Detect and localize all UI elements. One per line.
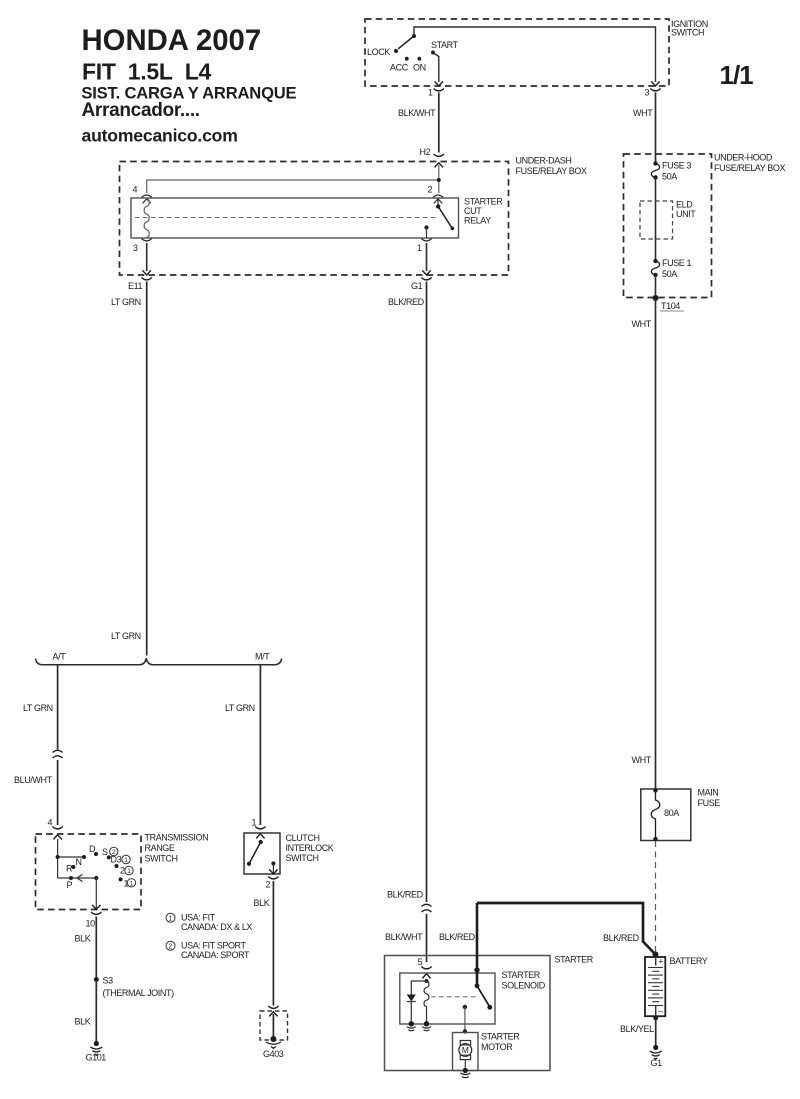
svg-text:CUT: CUT (464, 206, 482, 216)
svg-text:SWITCH: SWITCH (286, 853, 319, 863)
starter box (385, 956, 551, 1071)
solenoid diode (411, 981, 426, 1023)
svg-text:BLK/RED: BLK/RED (388, 297, 425, 307)
svg-text:1: 1 (130, 880, 134, 887)
starter solenoid box (400, 973, 495, 1024)
svg-text:+: + (658, 956, 663, 966)
under-dash fuse/relay box (120, 162, 509, 276)
svg-text:1/1: 1/1 (720, 60, 754, 90)
svg-text:FUSE: FUSE (698, 798, 721, 808)
relay coil (144, 199, 149, 238)
svg-text:S3: S3 (103, 976, 114, 986)
svg-text:2: 2 (428, 185, 433, 195)
svg-text:START: START (431, 40, 459, 50)
wire fuse3 to fuse1 (655, 178, 657, 262)
svg-text:CANADA: SPORT: CANADA: SPORT (181, 950, 250, 960)
note 1 USA:FIT CANADA DX LX (166, 913, 175, 922)
wire pin 3 to E11 (146, 243, 148, 271)
svg-text:S: S (102, 847, 108, 857)
svg-text:H2: H2 (420, 147, 431, 157)
note 2 USA:FIT SPORT CANADA SPORT (166, 941, 175, 950)
svg-text:BLK/RED: BLK/RED (439, 932, 476, 942)
wire pin 1 to G1 (426, 243, 428, 271)
relay pin 3 (142, 239, 152, 241)
wire BLU/WHT (57, 760, 59, 825)
wire LT GRN E11 down to branch (146, 282, 148, 656)
svg-text:LT GRN: LT GRN (111, 631, 141, 641)
svg-text:80A: 80A (664, 808, 679, 818)
wire from arm to pin 3 (414, 27, 656, 82)
pin 1 connector (435, 81, 443, 86)
svg-text:WHT: WHT (632, 319, 652, 329)
svg-text:WHT: WHT (632, 755, 652, 765)
svg-text:MOTOR: MOTOR (481, 1042, 513, 1052)
relay contact arm (434, 199, 442, 204)
svg-text:P: P (67, 880, 73, 890)
relay pin 2 (433, 195, 443, 197)
svg-text:G1: G1 (651, 1058, 663, 1068)
solenoid mechanical link (dashed) (431, 996, 479, 998)
wire BLK/WHT pin1 to H2 (438, 93, 440, 153)
svg-text:HONDA 2007: HONDA 2007 (82, 24, 262, 57)
svg-text:FUSE 3: FUSE 3 (662, 161, 692, 171)
svg-text:M: M (462, 1045, 469, 1055)
svg-text:G403: G403 (263, 1049, 284, 1059)
solenoid fixed contact to motor (463, 1005, 467, 1009)
svg-text:MAIN: MAIN (698, 788, 719, 798)
svg-text:UNIT: UNIT (676, 209, 696, 219)
main fuse 80A (653, 788, 657, 792)
svg-text:BLK/RED: BLK/RED (603, 933, 640, 943)
svg-text:RANGE: RANGE (145, 843, 175, 853)
svg-text:BLK/WHT: BLK/WHT (385, 932, 423, 942)
svg-text:BLK: BLK (254, 898, 270, 908)
inline connector on A/T wire (53, 750, 63, 758)
svg-text:3: 3 (645, 88, 650, 98)
svg-text:G1: G1 (411, 281, 423, 291)
svg-text:SWITCH: SWITCH (671, 28, 704, 38)
svg-text:1: 1 (127, 868, 131, 875)
svg-text:BLK: BLK (75, 934, 91, 944)
svg-text:ACC: ACC (390, 63, 409, 73)
wire WHT pin3 to under-hood box (655, 93, 657, 164)
clutch switch arm (259, 840, 263, 844)
svg-text:automecanico.com: automecanico.com (82, 126, 238, 146)
svg-text:M/T: M/T (255, 652, 270, 662)
contact R (71, 865, 75, 869)
contact N (82, 855, 86, 859)
battery cable wire (477, 903, 656, 955)
wire BLK/YEL (655, 1018, 657, 1045)
svg-text:50A: 50A (662, 172, 677, 182)
svg-text:TRANSMISSION: TRANSMISSION (145, 833, 209, 843)
svg-text:ON: ON (413, 63, 426, 73)
TRS pin 10 connector (92, 905, 100, 910)
fuse FUSE 3 50A (653, 161, 657, 165)
ground box G403 (260, 1011, 288, 1040)
svg-text:D3: D3 (111, 855, 122, 865)
dashed wire main fuse to battery (655, 841, 657, 952)
svg-text:USA: FIT SPORT: USA: FIT SPORT (181, 941, 246, 951)
svg-text:2: 2 (266, 880, 271, 890)
svg-text:D: D (89, 844, 96, 854)
ground G101 (90, 1041, 102, 1055)
battery B1 (645, 957, 665, 1016)
junction to pin 10 (94, 876, 98, 880)
svg-text:STARTER: STARTER (555, 955, 594, 965)
svg-text:CLUTCH: CLUTCH (286, 833, 320, 843)
connector G1 (422, 270, 430, 275)
svg-text:2: 2 (169, 943, 173, 950)
svg-text:BLU/WHT: BLU/WHT (14, 775, 53, 785)
svg-text:Arrancador....: Arrancador.... (82, 100, 200, 121)
svg-text:BLK/RED: BLK/RED (387, 890, 424, 900)
junction H2 wire (437, 178, 441, 182)
branch brace A/T M/T (36, 658, 282, 664)
svg-text:USA: FIT: USA: FIT (181, 913, 216, 923)
relay mechanical link (dashed) (135, 217, 437, 219)
main fuse box (641, 789, 691, 841)
clutch interlock switch box (244, 833, 280, 874)
wire M/T branch LT GRN (259, 665, 261, 825)
wire BLK pin10 to S3 (95, 917, 97, 979)
relay fixed contact to pin 1 (424, 225, 428, 229)
relay pin 4 (142, 195, 152, 197)
svg-text:RELAY: RELAY (464, 216, 491, 226)
svg-text:5: 5 (418, 957, 423, 967)
svg-text:–: – (658, 1006, 663, 1016)
contact 2 (1) (115, 864, 119, 868)
contact P with arrow (69, 876, 73, 880)
contact D (94, 852, 98, 856)
under-hood fuse/relay box (624, 154, 712, 298)
connector E11 (143, 270, 151, 275)
svg-text:FIT 1.5L L4: FIT 1.5L L4 (82, 59, 212, 85)
svg-text:2: 2 (120, 866, 125, 876)
wire WHT T104 down to main fuse (655, 298, 657, 789)
clutch pin 2 connector (269, 869, 277, 874)
pin 3 connector (651, 81, 659, 86)
wire BLK clutch to G403 (272, 881, 274, 1006)
solenoid contact arm (475, 983, 480, 988)
svg-text:50A: 50A (662, 269, 677, 279)
battery negative node (653, 1016, 658, 1021)
svg-text:FUSE/RELAY BOX: FUSE/RELAY BOX (516, 166, 587, 176)
svg-text:FUSE 1: FUSE 1 (662, 258, 692, 268)
wire BLK S3 to G101 (95, 980, 97, 1042)
motor M1 (460, 1041, 470, 1045)
wire A/T branch LT GRN (57, 665, 59, 750)
ground G1 (650, 1045, 662, 1059)
contact S (2) (107, 855, 111, 859)
splice S3 thermal joint (94, 977, 99, 982)
svg-text:1: 1 (428, 88, 433, 98)
svg-text:FUSE/RELAY BOX: FUSE/RELAY BOX (714, 163, 785, 173)
inline connector on BLK/RED wire (422, 904, 432, 912)
svg-text:1: 1 (169, 915, 173, 922)
svg-text:(THERMAL JOINT): (THERMAL JOINT) (103, 988, 175, 998)
svg-text:UNDER-HOOD: UNDER-HOOD (714, 153, 773, 163)
svg-text:WHT: WHT (633, 108, 653, 118)
ignition switch box (365, 19, 669, 86)
svg-text:E11: E11 (128, 281, 143, 291)
starter cut relay box (131, 198, 459, 238)
svg-text:BLK/YEL: BLK/YEL (620, 1024, 654, 1034)
svg-text:STARTER: STARTER (502, 970, 541, 980)
motor case ground (464, 1060, 466, 1070)
fuse FUSE 1 50A (653, 259, 657, 263)
transmission range switch box (36, 834, 142, 910)
wire START to pin 1 (434, 53, 439, 82)
switch arm (398, 36, 414, 49)
svg-text:STARTER: STARTER (464, 197, 503, 207)
wire BLK/WHT connector to pin 5 (426, 914, 428, 962)
ground G403 (270, 1036, 276, 1042)
svg-text:CANADA: DX & LX: CANADA: DX & LX (181, 922, 252, 932)
svg-text:G101: G101 (86, 1053, 107, 1063)
svg-text:BATTERY: BATTERY (670, 956, 708, 966)
svg-text:10: 10 (86, 919, 96, 929)
svg-text:BLK/WHT: BLK/WHT (398, 108, 436, 118)
svg-text:4: 4 (48, 818, 53, 828)
svg-text:N: N (76, 857, 82, 867)
solenoid coil (425, 979, 429, 983)
connector into G403 (268, 1006, 278, 1008)
svg-text:SOLENOID: SOLENOID (502, 981, 546, 991)
clutch switch fixed contact (271, 861, 275, 865)
connector T104 (653, 295, 659, 301)
svg-text:1: 1 (124, 857, 128, 864)
svg-text:LT GRN: LT GRN (225, 703, 255, 713)
starter motor box (453, 1033, 479, 1071)
relay pin 1 (421, 239, 431, 241)
svg-text:3: 3 (133, 243, 138, 253)
svg-text:A/T: A/T (53, 652, 67, 662)
wire fuse1 to T104 (655, 275, 657, 298)
TRS pole wire (58, 839, 97, 878)
svg-text:1: 1 (417, 243, 422, 253)
battery cable to solenoid contact (476, 903, 479, 985)
wire H2 to relay pins 2 and 4 (147, 165, 439, 193)
svg-text:ELD: ELD (676, 200, 693, 210)
svg-text:STARTER: STARTER (481, 1032, 520, 1042)
svg-text:LOCK: LOCK (367, 47, 390, 57)
svg-text:LT GRN: LT GRN (111, 297, 141, 307)
svg-text:1: 1 (252, 818, 257, 828)
wire BLK/RED G1 down to starter (426, 282, 428, 903)
svg-text:4: 4 (133, 185, 138, 195)
junction dot (56, 855, 60, 859)
svg-text:INTERLOCK: INTERLOCK (286, 843, 334, 853)
svg-text:UNDER-DASH: UNDER-DASH (516, 156, 572, 166)
wire inside G403 (272, 1014, 274, 1037)
ELD unit box (640, 201, 673, 239)
svg-text:T104: T104 (661, 301, 680, 311)
svg-text:LT GRN: LT GRN (23, 703, 53, 713)
svg-text:BLK: BLK (75, 1017, 91, 1027)
contact 1 (1) (119, 877, 123, 881)
svg-text:SWITCH: SWITCH (145, 854, 178, 864)
svg-text:R: R (66, 864, 73, 874)
